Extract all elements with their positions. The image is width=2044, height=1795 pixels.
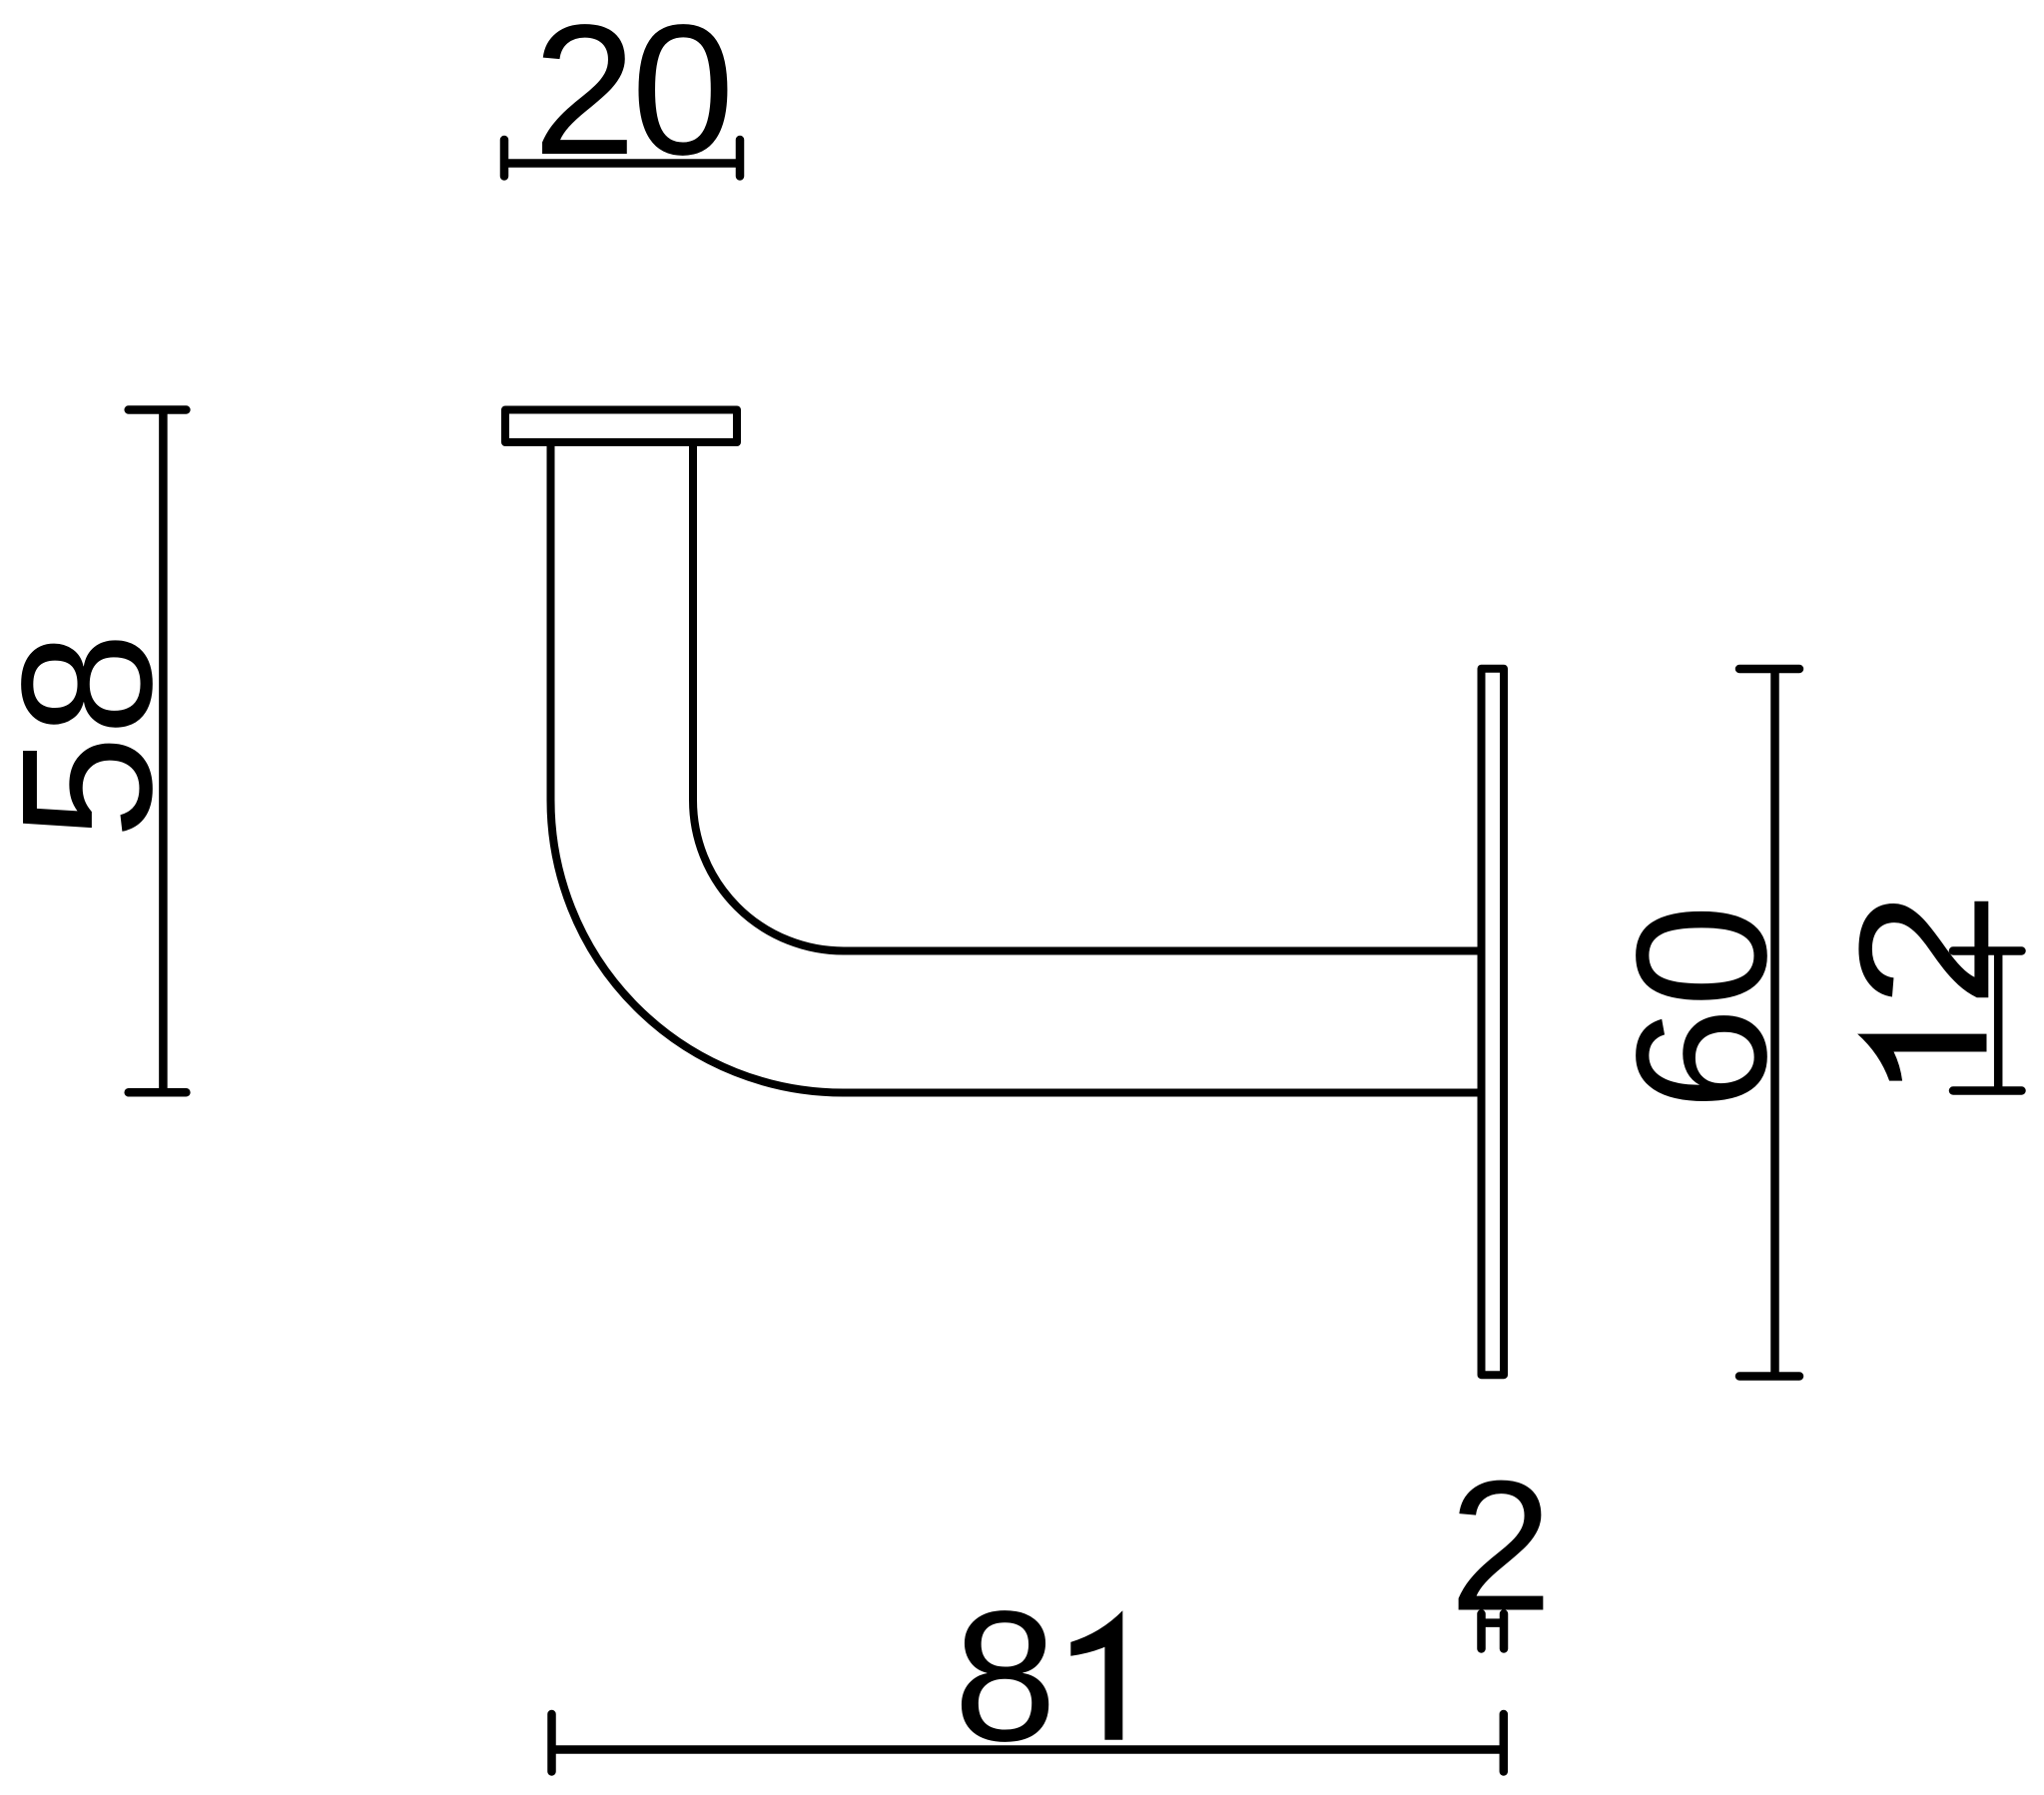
bracket flange (top plate, 20 wide) [505,410,737,443]
svg-text:20: 20 [533,0,735,194]
dim 12: digit 1 (custom glyph) [1857,1034,1986,1081]
dim 81: line [552,1745,1504,1754]
dim 60: top tick [1739,665,1799,674]
dim 2: right tick [1500,1614,1509,1649]
dim 20: left tick [500,140,509,177]
svg-text:58: 58 [0,632,191,839]
svg-text:60: 60 [1599,904,1805,1111]
dim 81: right tick [1500,1714,1509,1772]
wall plate (60 x 2) [1482,669,1505,1375]
dim 60: line [1770,669,1779,1377]
svg-text:2: 2 [1820,891,2028,1008]
dim 20: line [504,159,740,168]
svg-text:8: 8 [954,1573,1056,1780]
svg-text:2: 2 [1449,1444,1552,1650]
bracket inner profile: stem right + inner bend + arm top [693,446,1482,951]
dim 20: right tick [736,140,745,177]
dim 2: left tick [1477,1614,1486,1649]
dim 58: bottom tick [129,1088,187,1097]
dim 12: bottom tick [1953,1086,2022,1095]
dim 58: line [159,410,168,1093]
bracket outer profile: stem left + outer bend + arm bottom [551,446,1482,1093]
dim 58: top tick [129,405,187,414]
dim 60: bottom tick [1739,1372,1799,1381]
dim 12: top tick [1953,946,2022,955]
dim 12: line [1994,951,2003,1091]
dim 2: line [1478,1618,1509,1627]
dim 81: left tick [547,1714,556,1772]
dim 81: digit 1 (custom glyph) [1070,1610,1122,1739]
